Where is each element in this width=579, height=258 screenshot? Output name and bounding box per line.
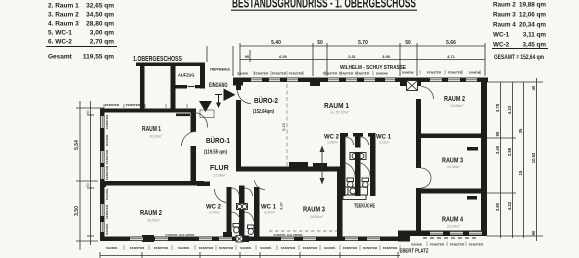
svg-text:FENSTER: FENSTER <box>254 72 269 76</box>
svg-text:50: 50 <box>405 40 411 46</box>
svg-text:34,50 qm: 34,50 qm <box>86 12 114 19</box>
svg-text:3,00 qm: 3,00 qm <box>90 30 114 37</box>
svg-text:FENSTER: FENSTER <box>130 246 145 250</box>
svg-text:3.78: 3.78 <box>495 103 500 112</box>
svg-text:12,06 qm: 12,06 qm <box>519 12 546 19</box>
svg-text:4,97: 4,97 <box>280 202 284 209</box>
svg-text:AUFZUG: AUFZUG <box>178 73 195 79</box>
svg-text:FENSTER: FENSTER <box>272 72 287 76</box>
svg-text:50: 50 <box>86 110 90 114</box>
svg-text:FLUR: FLUR <box>210 165 229 172</box>
svg-text:SANDK.: SANDK. <box>105 223 109 235</box>
svg-text:RAUM 1: RAUM 1 <box>324 103 349 110</box>
svg-text:34,50m²: 34,50m² <box>147 219 161 223</box>
svg-text:Raum 4: Raum 4 <box>493 22 516 29</box>
svg-text:3.80: 3.80 <box>495 202 500 211</box>
svg-text:95: 95 <box>495 131 500 136</box>
svg-text:(119,55 qm): (119,55 qm) <box>204 150 227 156</box>
svg-text:SANDW.: SANDW. <box>469 71 482 75</box>
svg-text:3,11 qm: 3,11 qm <box>523 32 547 39</box>
svg-text:RAUM 1: RAUM 1 <box>142 126 161 133</box>
svg-text:FENSTER: FENSTER <box>105 149 109 164</box>
svg-text:SANDK.: SANDK. <box>260 246 272 250</box>
svg-text:Raum 2: Raum 2 <box>493 2 516 9</box>
svg-text:4.32: 4.32 <box>507 201 512 210</box>
svg-text:SANDK.: SANDK. <box>411 243 423 247</box>
svg-text:2.98: 2.98 <box>507 147 512 156</box>
svg-text:FENSTER: FENSTER <box>343 246 358 250</box>
svg-text:SANDW.: SANDW. <box>376 72 389 76</box>
svg-text:FENSTER: FENSTER <box>289 72 304 76</box>
svg-text:20,34 qm: 20,34 qm <box>519 22 546 29</box>
svg-text:2.31: 2.31 <box>348 55 355 59</box>
svg-text:2,70m²: 2,70m² <box>209 211 221 215</box>
svg-text:FENSTER: FENSTER <box>154 246 169 250</box>
svg-text:BÜRO-2: BÜRO-2 <box>254 96 278 105</box>
svg-text:5.66: 5.66 <box>446 40 456 46</box>
svg-text:19,88m²: 19,88m² <box>450 104 464 108</box>
svg-text:GESAMT = 152,64 qm: GESAMT = 152,64 qm <box>494 54 544 61</box>
svg-text:15: 15 <box>518 170 523 175</box>
svg-text:WC-1: WC-1 <box>493 32 510 39</box>
svg-text:17,36m²: 17,36m² <box>213 174 227 178</box>
svg-text:FENSTER: FENSTER <box>105 165 109 180</box>
svg-text:FENSTER: FENSTER <box>450 243 465 247</box>
svg-text:10.53: 10.53 <box>531 152 536 163</box>
svg-text:40: 40 <box>531 85 536 90</box>
svg-text:FENSTER: FENSTER <box>430 243 445 247</box>
svg-text:2,70 qm: 2,70 qm <box>90 39 114 46</box>
svg-text:19,88 qm: 19,88 qm <box>519 2 546 9</box>
svg-text:FENSTER: FENSTER <box>219 246 234 250</box>
svg-text:3. Raum 2: 3. Raum 2 <box>48 12 79 19</box>
svg-text:4,71: 4,71 <box>447 55 454 59</box>
svg-text:5. WC-1: 5. WC-1 <box>48 30 72 37</box>
svg-text:3.45: 3.45 <box>495 145 500 154</box>
svg-text:2. Raum 1: 2. Raum 1 <box>48 3 79 10</box>
svg-text:KONSTR. GALANTER: KONSTR. GALANTER <box>166 233 195 237</box>
svg-text:RAUM 2: RAUM 2 <box>444 96 465 103</box>
svg-text:3.08: 3.08 <box>382 55 389 59</box>
svg-text:Raum 3: Raum 3 <box>493 12 516 19</box>
svg-text:FENSTER: FENSTER <box>199 246 214 250</box>
svg-text:RAUM 3: RAUM 3 <box>303 207 325 214</box>
svg-text:FENSTER: FENSTER <box>469 243 484 247</box>
svg-text:3,50: 3,50 <box>74 206 80 216</box>
svg-text:4. Raum 3: 4. Raum 3 <box>48 21 79 28</box>
svg-text:90: 90 <box>245 55 249 59</box>
svg-text:RAUM 3: RAUM 3 <box>442 158 463 165</box>
svg-text:FENSTER: FENSTER <box>383 246 398 250</box>
svg-text:FENSTER: FENSTER <box>427 71 442 75</box>
svg-text:50: 50 <box>86 183 90 187</box>
svg-text:FENSTER: FENSTER <box>105 204 109 219</box>
svg-text:4.33: 4.33 <box>507 105 512 114</box>
svg-text:3,00m²: 3,00m² <box>264 211 276 215</box>
svg-text:WILHELM - SCHUY STRASSE: WILHELM - SCHUY STRASSE <box>340 65 406 71</box>
svg-text:12,06m²: 12,06m² <box>447 165 461 169</box>
svg-text:SANDK.: SANDK. <box>105 134 109 146</box>
svg-text:FENSTER: FENSTER <box>363 246 378 250</box>
svg-text:32,65 qm: 32,65 qm <box>86 3 114 10</box>
svg-text:Gesamt: Gesamt <box>48 54 73 61</box>
svg-text:SANDK.: SANDK. <box>105 188 109 200</box>
svg-text:(152,64qm): (152,64qm) <box>253 109 274 115</box>
svg-text:SANDW.: SANDW. <box>402 71 415 75</box>
svg-text:3,45 qm: 3,45 qm <box>523 42 547 49</box>
svg-text:SANDK.: SANDK. <box>178 246 190 250</box>
svg-text:5,54: 5,54 <box>74 140 80 150</box>
svg-text:FENSTER: FENSTER <box>448 71 463 75</box>
svg-text:FENSTER: FENSTER <box>105 114 109 129</box>
svg-text:EINGANG: EINGANG <box>209 83 228 89</box>
svg-text:6.15: 6.15 <box>282 123 286 130</box>
svg-text:TREPPENHAUS: TREPPENHAUS <box>210 68 231 72</box>
svg-text:6. WC-2: 6. WC-2 <box>48 39 72 46</box>
svg-text:50: 50 <box>317 40 323 46</box>
svg-text:28,80 qm: 28,80 qm <box>86 21 114 28</box>
svg-text:5.70: 5.70 <box>358 40 368 46</box>
svg-text:WC-2: WC-2 <box>493 42 510 49</box>
svg-text:ca. 57,97m²: ca. 57,97m² <box>330 111 350 115</box>
svg-text:EBERT PLATZ: EBERT PLATZ <box>400 249 429 255</box>
svg-text:SANDK.: SANDK. <box>240 246 252 250</box>
svg-text:FENSTER: FENSTER <box>105 103 120 107</box>
svg-text:32,65m²: 32,65m² <box>149 135 163 139</box>
svg-text:90: 90 <box>531 230 536 235</box>
svg-text:FENSTER: FENSTER <box>303 246 318 250</box>
svg-text:6.00: 6.00 <box>279 55 286 59</box>
svg-text:KONSTR. GALANTER: KONSTR. GALANTER <box>274 233 303 237</box>
svg-text:119,55 qm: 119,55 qm <box>83 54 114 61</box>
svg-text:BÜRO-1: BÜRO-1 <box>206 136 230 145</box>
svg-text:RAUM 2: RAUM 2 <box>140 210 162 217</box>
svg-text:SANDK.: SANDK. <box>106 246 118 250</box>
svg-text:3,45m²: 3,45m² <box>327 141 339 145</box>
svg-text:TEEKÜCHE: TEEKÜCHE <box>354 203 375 210</box>
svg-text:FENSTER: FENSTER <box>281 246 296 250</box>
svg-text:BESTANDSGRUNDRISS - 1. OBERGES: BESTANDSGRUNDRISS - 1. OBERGESCHOSS <box>232 0 416 11</box>
svg-text:RAUM 4: RAUM 4 <box>442 217 463 224</box>
svg-text:20,34m²: 20,34m² <box>447 225 461 229</box>
svg-text:FENSTER: FENSTER <box>126 103 141 107</box>
svg-text:35: 35 <box>518 128 523 133</box>
svg-text:5.40: 5.40 <box>271 40 281 46</box>
svg-text:3,11m²: 3,11m² <box>379 141 390 145</box>
svg-text:SANDK.: SANDK. <box>237 72 249 76</box>
svg-text:SANDK.: SANDK. <box>324 246 336 250</box>
svg-text:1.OBERGESCHOSS: 1.OBERGESCHOSS <box>133 56 182 63</box>
svg-text:28,80m²: 28,80m² <box>310 215 324 219</box>
